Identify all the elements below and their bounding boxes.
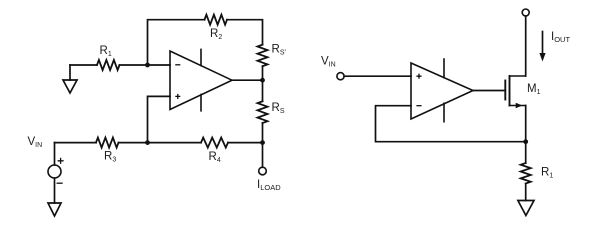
svg-text:R3: R3 [104, 151, 116, 164]
resistor R3 [96, 138, 119, 148]
svg-text:IOUT: IOUT [551, 31, 570, 44]
wire drain up [525, 16, 527, 76]
wire Vin source bottom [54, 178, 56, 203]
resistor Rs [258, 101, 268, 123]
wire op-amp output [232, 79, 263, 81]
terminal Vin right [337, 73, 344, 80]
wire feedback [376, 106, 526, 142]
wire ground to R1 [70, 64, 97, 66]
ground (right circuit) [518, 201, 534, 216]
source Vin [48, 158, 63, 183]
resistor R1 right [521, 163, 531, 184]
wire Rs' to output node [262, 66, 264, 80]
wire node to R1 right [525, 142, 527, 163]
node source junction [523, 139, 528, 144]
svg-text:RS′: RS′ [272, 44, 287, 57]
node non-inverting junction [145, 140, 150, 145]
op-amp U2 [411, 59, 473, 122]
wire R1 to inverting input [120, 64, 171, 66]
terminal Iout [522, 9, 529, 16]
svg-text:M1: M1 [527, 83, 541, 96]
wire R1 to ground right [525, 184, 527, 201]
node Rs bottom junction [260, 140, 265, 145]
svg-text:R2: R2 [210, 28, 222, 41]
resistor R1 [97, 60, 120, 70]
wire R4 to bottom node [228, 142, 263, 144]
terminal Iload [259, 167, 267, 175]
svg-text:VIN: VIN [321, 56, 336, 69]
resistor Rs' [258, 45, 268, 66]
arrow Iout current direction [539, 32, 545, 62]
svg-text:RS: RS [272, 102, 285, 115]
node inverting input junction [145, 63, 150, 68]
wire top feedback rail left [148, 20, 205, 65]
svg-text:R4: R4 [209, 151, 221, 164]
wire top feedback rail right [227, 20, 263, 45]
svg-text:VIN: VIN [28, 136, 43, 149]
ground (below Vin source) [48, 203, 61, 216]
transistor M1 [505, 76, 525, 108]
wire source down [525, 106, 527, 142]
wire Vin source top [54, 143, 56, 165]
resistor R2 [205, 15, 228, 25]
svg-text:R1: R1 [541, 167, 553, 180]
wire to load terminal [262, 143, 264, 168]
wire Rs to bottom node [262, 123, 264, 143]
svg-text:ILOAD: ILOAD [257, 179, 281, 192]
svg-text:R1: R1 [100, 45, 112, 58]
wire op-amp output to gate [473, 90, 505, 92]
resistor R4 [201, 138, 228, 148]
wire Vin to non-inverting input [344, 75, 411, 77]
wire output node to Rs [262, 80, 264, 101]
wire Vin to R3 [55, 142, 97, 144]
wire R3 to R4 [119, 142, 202, 144]
node output junction [260, 78, 265, 83]
wire non-inverting input [148, 96, 171, 142]
op-amp U1 [170, 49, 232, 110]
ground (left of R1) [63, 65, 77, 93]
